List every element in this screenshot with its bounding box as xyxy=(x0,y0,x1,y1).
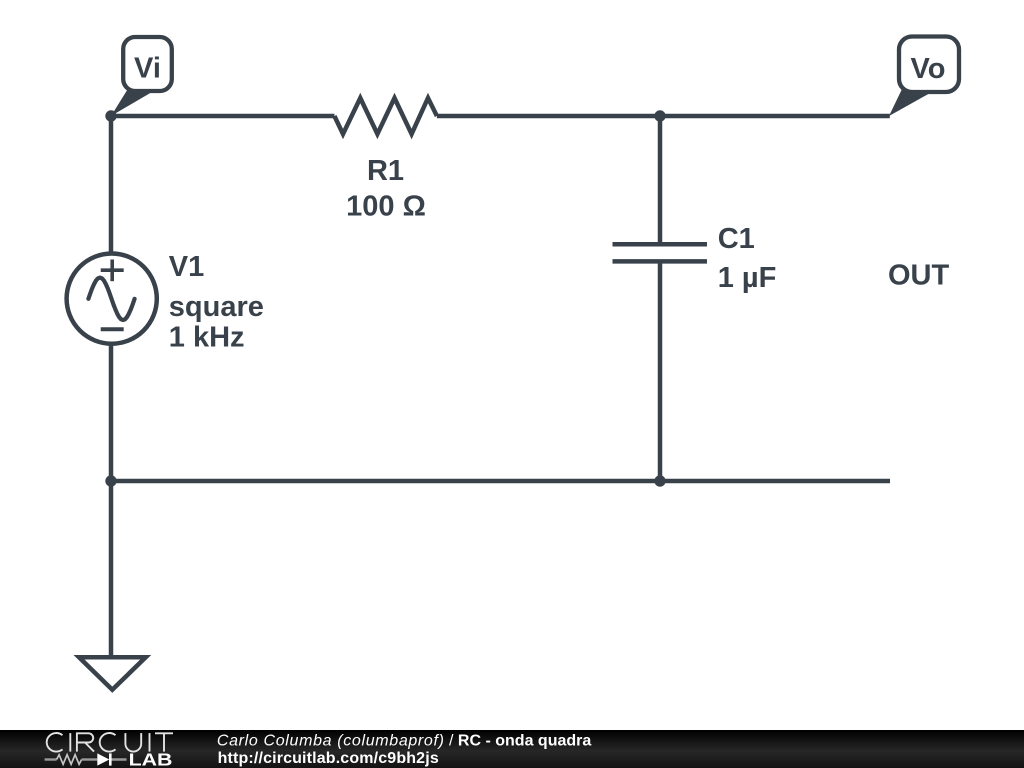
svg-text:1 µF: 1 µF xyxy=(718,262,777,294)
svg-text:Vo: Vo xyxy=(911,53,946,85)
svg-text:square: square xyxy=(169,291,264,323)
svg-text:V1: V1 xyxy=(169,251,204,283)
svg-text:100 Ω: 100 Ω xyxy=(346,190,426,222)
svg-text:Vi: Vi xyxy=(134,53,161,85)
svg-text:LAB: LAB xyxy=(129,750,173,768)
svg-text:R1: R1 xyxy=(367,155,404,187)
svg-text:1 kHz: 1 kHz xyxy=(169,322,245,354)
svg-text:Carlo Columba (columbaprof) /: Carlo Columba (columbaprof) / RC - onda … xyxy=(217,732,591,749)
svg-text:http://circuitlab.com/c9bh2js: http://circuitlab.com/c9bh2js xyxy=(218,750,439,767)
svg-text:OUT: OUT xyxy=(888,259,950,291)
svg-text:C1: C1 xyxy=(718,223,755,255)
